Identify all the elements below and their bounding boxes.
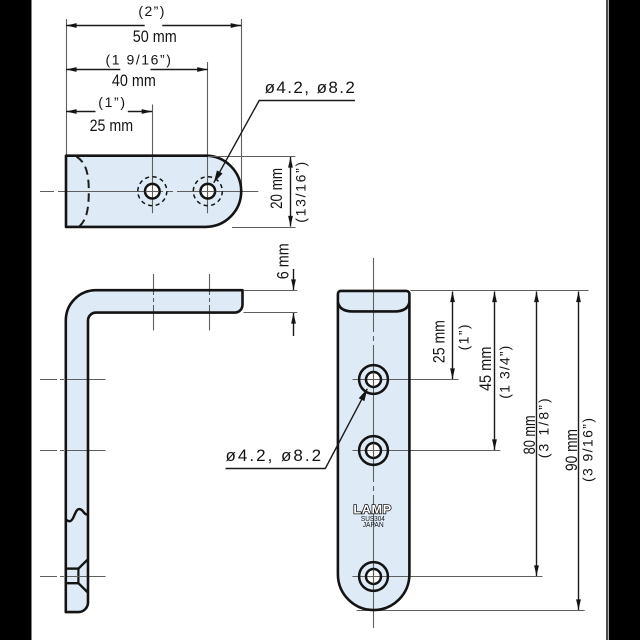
svg-text:(3 1/8”): (3 1/8”) <box>536 398 552 458</box>
extension line hole A <box>353 379 459 381</box>
dimension 80 mm (front) <box>521 292 552 577</box>
scan black bar left <box>0 0 32 640</box>
hole H1 (top view) <box>138 177 167 206</box>
front view plate outline <box>338 291 410 610</box>
svg-text:(3 9/16”): (3 9/16”) <box>580 418 596 482</box>
svg-text:(1 3/4”): (1 3/4”) <box>497 346 513 399</box>
svg-text:50 mm: 50 mm <box>133 27 177 46</box>
svg-text:(2”): (2”) <box>138 3 164 19</box>
svg-text:ø4.2, ø8.2: ø4.2, ø8.2 <box>226 446 322 465</box>
leader label hole diameters (top view) <box>214 78 355 183</box>
centerline hole A (side view) <box>40 379 106 381</box>
svg-text:(13/16”): (13/16”) <box>292 162 308 223</box>
dimension 6 mm <box>275 243 294 336</box>
LAMP logo <box>353 502 392 529</box>
scan black bar right <box>606 0 640 640</box>
svg-text:20 mm: 20 mm <box>268 168 286 209</box>
top view plate outline stroke <box>66 156 241 227</box>
extension line 20mm bottom <box>232 227 295 229</box>
dimension 40 mm <box>66 52 208 90</box>
extension line 6mm bottom <box>244 312 298 314</box>
svg-text:(1 9/16”): (1 9/16”) <box>106 52 171 68</box>
extension line front top <box>411 290 589 292</box>
break squiggle <box>66 509 88 521</box>
dimension 25 mm (front) <box>430 292 471 380</box>
extension line hole H1 <box>152 105 154 214</box>
bend line dashed arc <box>77 157 89 227</box>
centerline hole H2 (side view, horizontal leg) <box>209 274 211 330</box>
front view vertical centerline <box>373 258 375 628</box>
bend tangent arc (front view) <box>338 302 410 311</box>
hole H2 (top view) <box>193 177 222 206</box>
svg-text:(1”): (1”) <box>98 94 125 110</box>
front view plate outline stroke <box>338 291 410 610</box>
svg-text:ø4.2, ø8.2: ø4.2, ø8.2 <box>265 78 355 97</box>
extension line hole C <box>353 576 543 578</box>
hole bores (front view) <box>367 373 380 583</box>
svg-text:(1”): (1”) <box>456 324 472 350</box>
dimension 50 mm <box>66 3 241 46</box>
hole bores (top view) <box>146 185 214 197</box>
leader label hole diameters (front view) <box>226 389 368 469</box>
side view outline <box>66 290 243 612</box>
extension line hole H2 <box>207 62 209 213</box>
svg-text:JAPAN: JAPAN <box>363 522 384 529</box>
svg-text:LAMP: LAMP <box>353 502 392 516</box>
hole A (front view) <box>359 365 388 394</box>
centerline over bores (top view) <box>146 191 215 193</box>
centerline hole H1 (side view, horizontal leg) <box>153 274 155 330</box>
svg-text:40 mm: 40 mm <box>112 71 156 90</box>
hole C (front view) <box>359 562 388 591</box>
top view plate outline <box>66 156 241 227</box>
dimension 20 mm <box>268 157 309 227</box>
extension line hole B <box>353 450 501 452</box>
hole B (front view) <box>359 436 388 465</box>
dimension 90 mm (front) <box>563 292 595 611</box>
svg-text:25 mm: 25 mm <box>430 320 448 363</box>
extension line 6mm top <box>244 290 298 292</box>
extension line 20mm top <box>208 156 295 158</box>
dimension 45 mm (front) <box>477 292 513 451</box>
svg-text:25 mm: 25 mm <box>90 116 134 135</box>
svg-text:6 mm: 6 mm <box>275 243 293 279</box>
countersunk hole section <box>66 559 88 592</box>
side view outline stroke <box>66 290 243 612</box>
extension line right edge <box>241 19 243 196</box>
dimension 25 mm <box>66 94 152 135</box>
centerline hole B (side view) <box>40 450 106 452</box>
centerline hole C (side view) <box>40 576 106 578</box>
extension line left edge <box>66 19 68 155</box>
centerline over bores (front view) <box>373 373 375 584</box>
extension line front bottom <box>357 610 585 612</box>
svg-text:45 mm: 45 mm <box>477 347 495 392</box>
top view centerline <box>40 191 258 193</box>
svg-text:90 mm: 90 mm <box>563 429 581 471</box>
